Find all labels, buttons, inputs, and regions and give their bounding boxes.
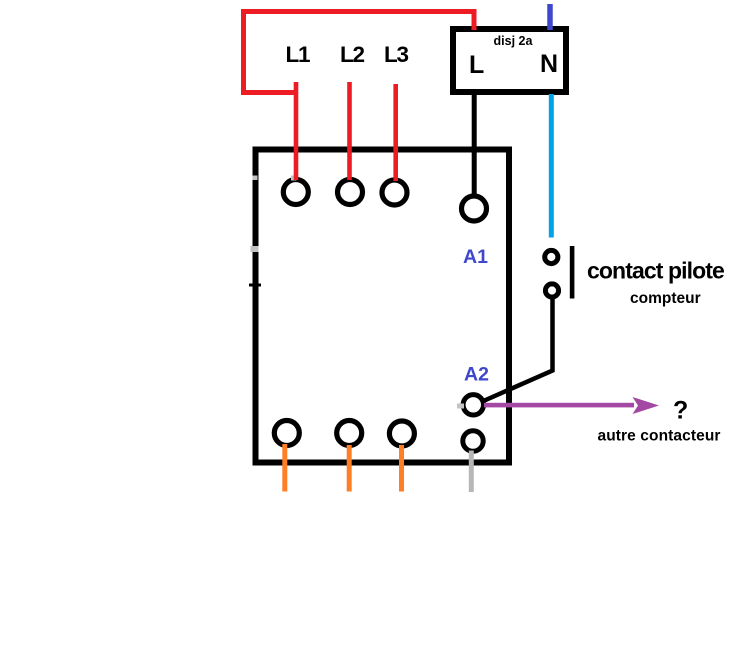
terminal circle A1 coil [462, 196, 487, 221]
svg-text:?: ? [673, 397, 688, 425]
svg-text:compteur: compteur [630, 290, 701, 307]
terminal circle L3 [382, 180, 407, 205]
svg-text:L1: L1 [286, 42, 311, 67]
svg-text:disj 2a: disj 2a [494, 34, 534, 48]
svg-text:L2: L2 [340, 42, 365, 67]
bottom terminal circle T2 [337, 421, 362, 446]
wire orange T2 [347, 445, 352, 492]
wire red phase feed top loop [241, 9, 477, 95]
bottom terminal circle T3 [389, 421, 414, 446]
contact pilote bar [570, 246, 575, 299]
contact pilote circle top [545, 250, 558, 263]
svg-text:L3: L3 [384, 42, 409, 67]
terminal circle A2 [463, 395, 483, 415]
svg-text:contact pilote: contact pilote [587, 258, 724, 284]
contactor box [256, 150, 510, 463]
purple arrow to other contactor [484, 397, 659, 414]
artifact gray mark near A2 [457, 404, 464, 409]
svg-text:A1: A1 [463, 246, 488, 268]
wire black L to A1 terminal [472, 94, 477, 196]
terminal circle aux below A2 [463, 431, 483, 451]
bottom terminal circle T1 [274, 421, 299, 446]
wire orange T1 [282, 444, 287, 492]
wire black contact to A2 [480, 299, 553, 403]
artifact gray dash on left edge 1 [253, 176, 258, 181]
wire gray aux [469, 451, 474, 493]
svg-text:L: L [469, 51, 484, 79]
terminal circle L2 [338, 180, 363, 205]
wire red to L2 [347, 82, 352, 180]
artifact gray dash on left edge 2 [251, 246, 259, 252]
artifact black tick on left edge [249, 284, 261, 287]
breaker box disj 2a [453, 29, 566, 92]
svg-text:N: N [540, 50, 558, 78]
wire red to L3 [393, 84, 398, 181]
wire cyan neutral from N [549, 94, 554, 238]
svg-text:A2: A2 [464, 364, 489, 386]
contact pilote circle bottom [545, 284, 558, 297]
artifact gray dash at L1 wire tip [291, 176, 297, 181]
terminal circle L1 [283, 180, 308, 205]
wire orange T3 [399, 445, 404, 492]
wire red to L1 [294, 82, 299, 180]
wire navy stub above breaker [547, 4, 553, 30]
svg-text:autre contacteur: autre contacteur [598, 428, 721, 445]
